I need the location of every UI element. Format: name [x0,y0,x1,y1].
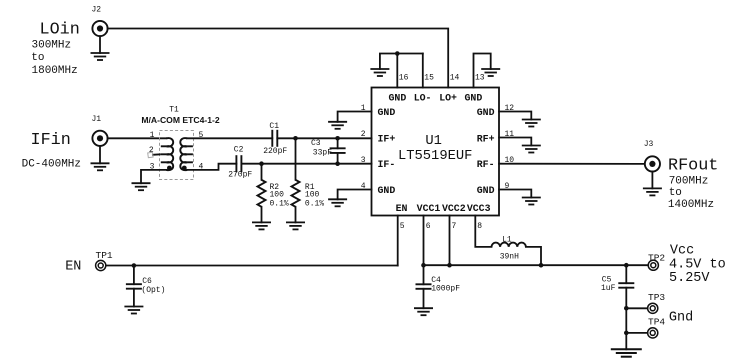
ground (R1) [286,222,305,229]
svg-text:TP4: TP4 [648,316,665,327]
capacitor C1 [272,130,277,147]
resistor R1 [292,138,300,222]
wire U1 pin 4 (GND) to ground [338,190,372,200]
T1 primary winding taps [161,146,167,162]
svg-text:J2: J2 [92,6,102,15]
svg-text:RF-: RF- [477,159,495,170]
ground (J2) [91,36,110,60]
svg-text:DC-400MHz: DC-400MHz [22,159,81,171]
wire U1 pin 16 to ground bar [396,54,398,88]
wire C2 to U1 pin 3 (IF-) [241,163,371,165]
wire U1 pin 6 (VCC1) to C4 [423,216,425,285]
svg-text:12: 12 [505,104,515,113]
svg-text:LOin: LOin [40,20,80,39]
wire U1 pin 9 to ground [499,190,531,198]
ground (T1 pin 3) [132,183,151,190]
svg-text:300MHz: 300MHz [32,39,72,51]
ground (U1 pin 11) [522,146,541,153]
U1 right pin names [477,107,495,196]
transformer T1 dashed outline [160,131,194,180]
svg-text:220pF: 220pF [263,147,287,156]
junction (L1 / rail) [539,263,544,268]
wire U1 pin 7 (VCC2) to rail [449,216,451,266]
svg-text:VCC2: VCC2 [442,203,466,214]
svg-text:700MHz: 700MHz [669,175,709,187]
junction (IF+ / R1) [293,136,298,141]
svg-text:TP1: TP1 [96,250,113,261]
svg-text:IF+: IF+ [378,133,396,144]
svg-text:L1: L1 [502,235,512,244]
T1 phase dot (primary) [167,166,172,171]
inductor L1 [492,243,526,247]
svg-text:GND: GND [378,107,396,118]
wire ground bar (pins 15/16) [380,54,423,70]
junction (IF- / R2) [259,161,264,166]
value label 700MHz to 1400MHz [668,175,714,211]
wire U1 pin 13 to ground [474,54,491,88]
ground (J3) [643,172,662,196]
svg-text:5: 5 [400,222,405,231]
svg-text:to: to [669,187,682,199]
junction (pin 16 / ground bar) [395,51,400,56]
svg-text:VCC3: VCC3 [467,203,491,214]
svg-text:RFout: RFout [668,157,718,176]
svg-text:100: 100 [270,190,285,199]
transformer T1 primary winding [166,138,173,170]
ground (U1 pin 12) [522,120,541,127]
svg-text:EN: EN [396,203,408,214]
svg-text:1: 1 [150,131,155,140]
svg-text:GND: GND [389,93,407,104]
test point TP1 [96,260,106,270]
U1 top pin names [389,93,483,104]
wire U1 pin 1 (GND) to ground [338,112,372,122]
wire T1 pin 5 to C1 [187,137,272,139]
svg-text:1000pF: 1000pF [431,285,460,294]
IC U1 outline [372,88,500,216]
junction (TP3 branch) [624,306,629,311]
svg-text:2: 2 [361,130,366,139]
svg-text:16: 16 [399,74,409,83]
capacitor C5 [618,265,634,308]
svg-text:GND: GND [465,93,483,104]
svg-text:39nH: 39nH [500,253,519,262]
test point TP3 [648,303,658,313]
junction (TP4 branch) [624,331,629,336]
svg-text:15: 15 [424,74,434,83]
svg-text:to: to [31,52,44,64]
test point TP4 [648,328,658,338]
value label 300MHz to 1800MHz [31,39,77,77]
svg-text:TP3: TP3 [648,292,665,303]
junction (IF+ / C3) [335,136,340,141]
svg-text:IFin: IFin [31,131,71,150]
svg-text:0.1%: 0.1% [270,199,289,208]
svg-text:Vcc: Vcc [670,244,694,259]
wire T1 pin 4 to C2 [187,164,236,170]
svg-text:11: 11 [505,130,515,139]
wire U1 pin 11 to ground [499,138,531,146]
T1 phase dot (secondary) [182,166,187,171]
test point TP2 [648,260,658,270]
svg-text:TP2: TP2 [648,253,665,264]
junction (VCC2 / rail) [447,263,452,268]
svg-text:3: 3 [361,156,366,165]
ground (C6) [124,307,143,314]
wire U1 pin 10 (RF-) to J3 [499,163,645,165]
value label 4.5V to 5.25V [669,258,726,286]
svg-text:U1: U1 [425,134,442,149]
svg-text:C6: C6 [142,277,152,286]
wire C5 to TP4 branch [625,308,627,333]
svg-text:GND: GND [378,185,396,196]
junction (C5 / rail) [624,263,629,268]
svg-text:IF-: IF- [378,159,396,170]
svg-text:6: 6 [426,222,431,231]
connector J1 [92,131,107,146]
ground (pin 13) [481,69,500,76]
ground (R2) [252,222,271,229]
svg-text:270pF: 270pF [228,171,252,180]
svg-text:Gnd: Gnd [669,311,693,326]
junction (VCC1 / rail) [421,263,426,268]
svg-text:LT5519EUF: LT5519EUF [398,149,473,164]
wire U1 pin 12 to ground [499,112,531,120]
svg-text:5.25V: 5.25V [669,271,710,286]
svg-text:J1: J1 [92,115,102,124]
wire C1 to U1 pin 2 (IF+) [277,137,371,139]
svg-text:100: 100 [305,190,320,199]
ground (J1) [91,146,110,170]
capacitor C2 [236,155,241,172]
svg-text:J3: J3 [644,140,654,149]
svg-text:9: 9 [505,182,510,191]
wire TP3 branch [626,307,647,309]
svg-text:RF+: RF+ [477,133,495,144]
transformer T1 secondary winding [180,138,187,170]
wire IFin: J1 to T1 pin 1 [108,137,167,139]
connector J2 [92,21,107,36]
capacitor C3 [330,138,346,163]
svg-text:4: 4 [361,182,366,191]
ground (U1 pin 9) [522,198,541,205]
svg-text:(Opt): (Opt) [141,286,165,295]
U1 bottom pin names [396,203,491,214]
svg-text:33pF: 33pF [313,148,332,157]
U1 left pin names [378,107,396,196]
svg-text:LO-: LO- [414,93,432,104]
wire T1 pin 3 to ground [141,170,166,183]
svg-text:T1: T1 [169,106,179,115]
ground (U1 pin 1) [328,122,347,129]
wire LO: J2 to U1 pin 14 [108,29,449,88]
wire U1 pin 15 to ground bar [422,54,424,88]
wire TP4 branch to main ground [625,333,627,349]
capacitor C6 [126,266,142,307]
svg-text:GND: GND [477,107,495,118]
ground (pins 15/16) [370,69,389,76]
wire Vcc rail [424,264,649,266]
T1 pin 2 stub [148,152,161,157]
svg-text:EN: EN [65,259,81,274]
svg-text:GND: GND [477,185,495,196]
svg-text:2: 2 [149,146,154,155]
T1 secondary winding taps [187,146,193,162]
svg-text:1800MHz: 1800MHz [32,65,78,77]
svg-text:1uF: 1uF [601,284,616,293]
ground (main supply) [611,349,642,356]
svg-text:M/A-COM ETC4-1-2: M/A-COM ETC4-1-2 [141,115,220,125]
svg-text:C1: C1 [269,122,279,131]
svg-text:7: 7 [452,222,457,231]
resistor R2 [258,164,266,223]
svg-text:C3: C3 [311,139,321,148]
svg-text:8: 8 [477,222,482,231]
wire U1 pin 8 (VCC3) to L1 [475,216,491,247]
ground (C4) [414,308,433,315]
connector J3 [645,156,660,171]
svg-text:C2: C2 [234,146,244,155]
junction (EN / C6) [132,263,137,268]
wire U1 pin 5 (EN) [397,216,399,266]
ground (U1 pin 4) [328,199,347,206]
svg-text:LO+: LO+ [439,93,457,104]
svg-text:1: 1 [361,104,366,113]
svg-text:1400MHz: 1400MHz [668,199,714,211]
svg-text:0.1%: 0.1% [305,199,324,208]
wire L1 to Vcc rail [526,247,541,265]
svg-text:13: 13 [475,74,485,83]
wire EN: TP1 to U1 pin 5 [106,265,398,267]
capacitor C4 [416,284,432,308]
svg-text:VCC1: VCC1 [417,203,441,214]
wire TP4 branch [626,332,647,334]
junction (IF- / C3) [335,161,340,166]
svg-text:14: 14 [450,74,460,83]
